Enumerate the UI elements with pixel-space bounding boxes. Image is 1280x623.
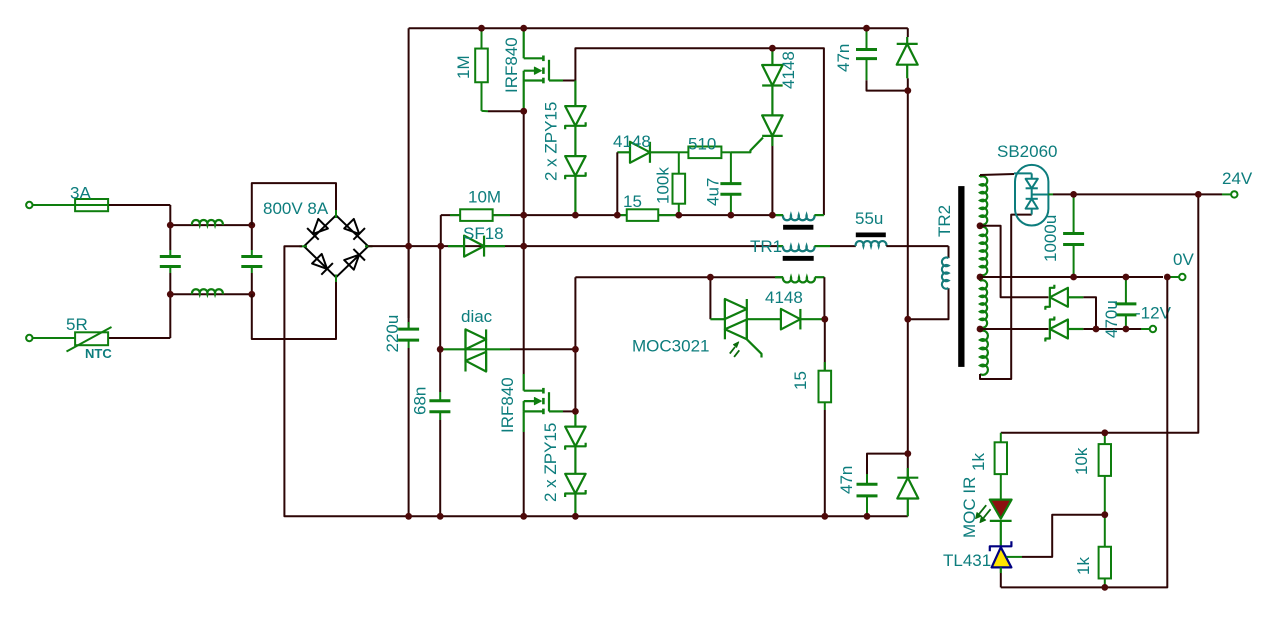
svg-text:TR2: TR2 — [935, 205, 954, 237]
TL431 reference wire — [1007, 556, 1022, 558]
terminal 0V — [1179, 274, 1185, 280]
EMI filter lower line — [170, 293, 252, 295]
diode 4148 (lower cell) — [747, 318, 781, 320]
resistor 10k — [1104, 433, 1106, 444]
svg-text:4148: 4148 — [613, 132, 651, 151]
resistor 15 (upper) — [617, 214, 627, 216]
bridge diode D4 (bottom-right) — [344, 255, 359, 270]
zener chain 2 x ZPY15 (upper) — [574, 81, 576, 107]
capacitor 4u7 — [730, 152, 732, 183]
resistor 510 — [679, 151, 689, 153]
schottky diode B (-12V) — [980, 328, 1048, 330]
svg-text:800V 8A: 800V 8A — [263, 199, 329, 218]
capacitor 47n (top) — [866, 28, 868, 49]
diode 4148 vertical (clamp) — [771, 48, 773, 65]
resistor 1M — [481, 28, 483, 48]
wire: top rail — [409, 27, 908, 29]
svg-text:1000u: 1000u — [1041, 215, 1060, 262]
resistor 15 (lower) — [824, 319, 826, 371]
diode 4148 horizontal (upper snubber) — [617, 151, 630, 153]
svg-text:IRF840: IRF840 — [502, 37, 521, 93]
resistor 100k — [678, 152, 680, 174]
resistor 1k (divider lower) — [1104, 515, 1106, 547]
capacitor 68n — [439, 349, 441, 392]
svg-text:220u: 220u — [383, 315, 402, 353]
LED MOC IR — [990, 500, 1012, 519]
svg-text:2 x ZPY15: 2 x ZPY15 — [541, 423, 560, 502]
svg-text:1k: 1k — [969, 453, 988, 471]
junction dots — [478, 25, 485, 32]
terminal 24V — [1231, 191, 1237, 197]
transformer TR1 top winding — [783, 215, 815, 220]
terminal -12V — [1150, 326, 1156, 332]
svg-text:TR1: TR1 — [750, 237, 782, 256]
wire: MOC line drop from bottom winding — [709, 277, 711, 319]
wire: AC input line 1 (fuse line) — [33, 204, 76, 206]
wire: T4 loop to SB2060 anode B — [980, 215, 1032, 379]
mosfet Q2 IRF840 (lower) — [523, 374, 525, 391]
wire: DC+ bus y246 — [368, 245, 783, 247]
svg-text:SF18: SF18 — [463, 224, 504, 243]
svg-text:4u7: 4u7 — [704, 178, 723, 206]
terminal: AC input 1 — [26, 202, 32, 208]
svg-text:4148: 4148 — [779, 51, 798, 89]
svg-text:24V: 24V — [1222, 169, 1253, 188]
EMI filter upper line — [170, 224, 252, 226]
wire: x908 vertical — [907, 91, 909, 454]
svg-text:NTC: NTC — [85, 346, 112, 361]
wire: 0V line — [980, 276, 1163, 278]
inductor L1 (upper EMI choke) — [192, 220, 223, 225]
svg-text:68n: 68n — [411, 387, 430, 415]
wire: 24V feedback drop x1198 — [1105, 194, 1199, 432]
diac — [440, 348, 465, 350]
dual schottky SB2060 — [1015, 165, 1048, 226]
TR1 core bar 2 — [783, 256, 814, 261]
svg-text:470u: 470u — [1102, 300, 1121, 338]
transformer TR1 bottom winding — [775, 276, 783, 278]
svg-text:10k: 10k — [1072, 447, 1091, 475]
svg-text:15: 15 — [791, 371, 810, 390]
resistor 1k (LED side) — [1000, 433, 1002, 443]
wire: 4148 left leg x617 — [616, 152, 618, 215]
wire: feedback top line — [1001, 432, 1105, 434]
wire: bottom rail — [409, 515, 908, 517]
wire: 24V line — [1048, 193, 1053, 195]
thermistor NTC 5R — [75, 332, 108, 345]
svg-text:IRF840: IRF840 — [498, 377, 517, 433]
diode (top clamp) — [907, 28, 909, 37]
zener chain 2 x ZPY15 (lower) — [574, 411, 576, 426]
svg-text:1k: 1k — [1074, 557, 1093, 575]
svg-text:100k: 100k — [654, 167, 673, 204]
transformer TR1 middle winding — [777, 245, 783, 247]
capacitor 470u — [1125, 277, 1127, 304]
junction dots EMI filter — [167, 222, 174, 229]
capacitor 220u (bulk) — [408, 246, 410, 329]
svg-text:diac: diac — [461, 307, 493, 326]
capacitor CX1 (left X cap) — [169, 225, 171, 250]
mosfet Q1 IRF840 (upper) — [523, 28, 525, 58]
inductor L2 (lower EMI choke) — [192, 289, 223, 294]
diode (bottom clamp) — [907, 454, 909, 478]
opto triac MOC3021 — [724, 299, 726, 339]
wire: TR1 bottom right leg to 4148 node — [823, 277, 825, 319]
wire: AC loop to bridge (box) — [252, 183, 336, 225]
svg-text:10M: 10M — [468, 188, 501, 207]
svg-text:MOC IR: MOC IR — [960, 477, 979, 538]
svg-text:-12V: -12V — [1135, 304, 1172, 323]
bridge rectifier 800V 8A — [304, 215, 368, 277]
wire: T0 to SB2060 anode A — [980, 174, 1014, 175]
svg-text:47n: 47n — [837, 466, 856, 494]
svg-text:55u: 55u — [855, 209, 883, 228]
wire: TR1 bottom winding line y277 — [574, 277, 576, 349]
wire: feedback bottom line — [1001, 586, 1105, 588]
svg-text:5R: 5R — [66, 315, 88, 334]
terminal: AC input 2 — [26, 335, 32, 341]
wire: half-bridge mid vertical to Q2 — [523, 246, 525, 374]
wire: 0V drop x1167 — [1105, 277, 1168, 587]
svg-text:3A: 3A — [70, 184, 91, 203]
wire: x440 vertical down (diac/68n leg) — [439, 246, 441, 349]
wire: upper gate line y48 — [575, 48, 824, 215]
schottky diode A (-12V) — [1050, 288, 1068, 307]
wire: upper cell rail y215 — [441, 214, 783, 216]
svg-text:15: 15 — [623, 192, 642, 211]
wire: lower gate leg x575 — [574, 349, 576, 411]
wire: T1 to -12V diode A — [980, 226, 1048, 297]
TR2 tap junctions — [977, 222, 984, 229]
wire: node A vertical (x524) — [523, 111, 525, 246]
svg-text:SB2060: SB2060 — [997, 142, 1058, 161]
diode SF18 — [448, 245, 464, 247]
svg-text:2 x ZPY15: 2 x ZPY15 — [542, 102, 561, 181]
wire: -12V line — [1096, 328, 1141, 330]
svg-text:47n: 47n — [834, 44, 853, 72]
TR2 core bar — [958, 186, 964, 367]
capacitor 47n (bottom) — [867, 454, 908, 485]
wire: bus continues TR1 middle to 55u to TR2 — [830, 245, 856, 247]
svg-text:MOC3021: MOC3021 — [632, 337, 709, 356]
bridge diode D2 (top-right) — [344, 219, 359, 234]
svg-text:4148: 4148 — [765, 288, 803, 307]
capacitor CX2 (right X cap) — [251, 225, 253, 250]
wire: left vertical x408 — [408, 28, 410, 246]
transformer TR2 secondary windings — [979, 175, 981, 177]
MOC3021 light arrows — [730, 347, 735, 354]
bridge diode D1 (top-left) — [313, 219, 328, 234]
wire: AC input line 2 (NTC line) — [33, 337, 76, 339]
shunt regulator TL431 — [990, 541, 1012, 551]
capacitor 1000u — [1073, 194, 1075, 233]
MOC IR light arrows — [979, 505, 986, 514]
wire: TR2 primary loop — [948, 246, 950, 258]
svg-text:0V: 0V — [1173, 250, 1194, 269]
inductor 55u — [856, 233, 886, 238]
wire: bridge DC- to bottom rail — [284, 246, 408, 516]
svg-text:TL431: TL431 — [943, 551, 991, 570]
thyristor (clamp SCR) — [762, 115, 783, 135]
svg-text:1M: 1M — [454, 55, 473, 79]
fuse F1 3A — [75, 199, 108, 211]
wire: 10M left leg — [440, 215, 442, 246]
svg-text:510: 510 — [688, 135, 716, 154]
TR1 core bar 1 — [783, 225, 813, 230]
bridge diode D3 (bottom-left) — [312, 254, 327, 269]
resistor 10M — [450, 214, 460, 216]
transformer TR2 primary winding — [942, 258, 949, 289]
